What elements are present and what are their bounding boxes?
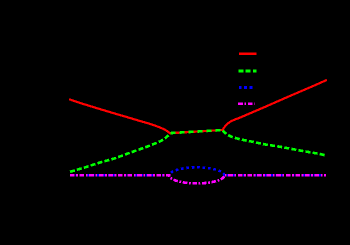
legend magenta dash-dot sample [238,102,254,105]
magenta dash-dot curve: imaginary part -, zero baseline with lower half-ellipse bubble [70,175,326,183]
red solid curve: upper real eigenvalue branch (left descending, middle coalesced, right ascending) [70,80,326,133]
blue dotted curve: imaginary part +, zero baseline with upper half-ellipse bubble [70,167,326,175]
legend green dashed sample [238,70,256,73]
legend blue dotted sample [239,86,255,89]
legend red solid sample [239,53,257,55]
green dashed middle coalesced segment over red [171,130,223,133]
green dashed right branch [223,131,326,156]
green dashed curve: lower real eigenvalue branch [70,134,170,172]
